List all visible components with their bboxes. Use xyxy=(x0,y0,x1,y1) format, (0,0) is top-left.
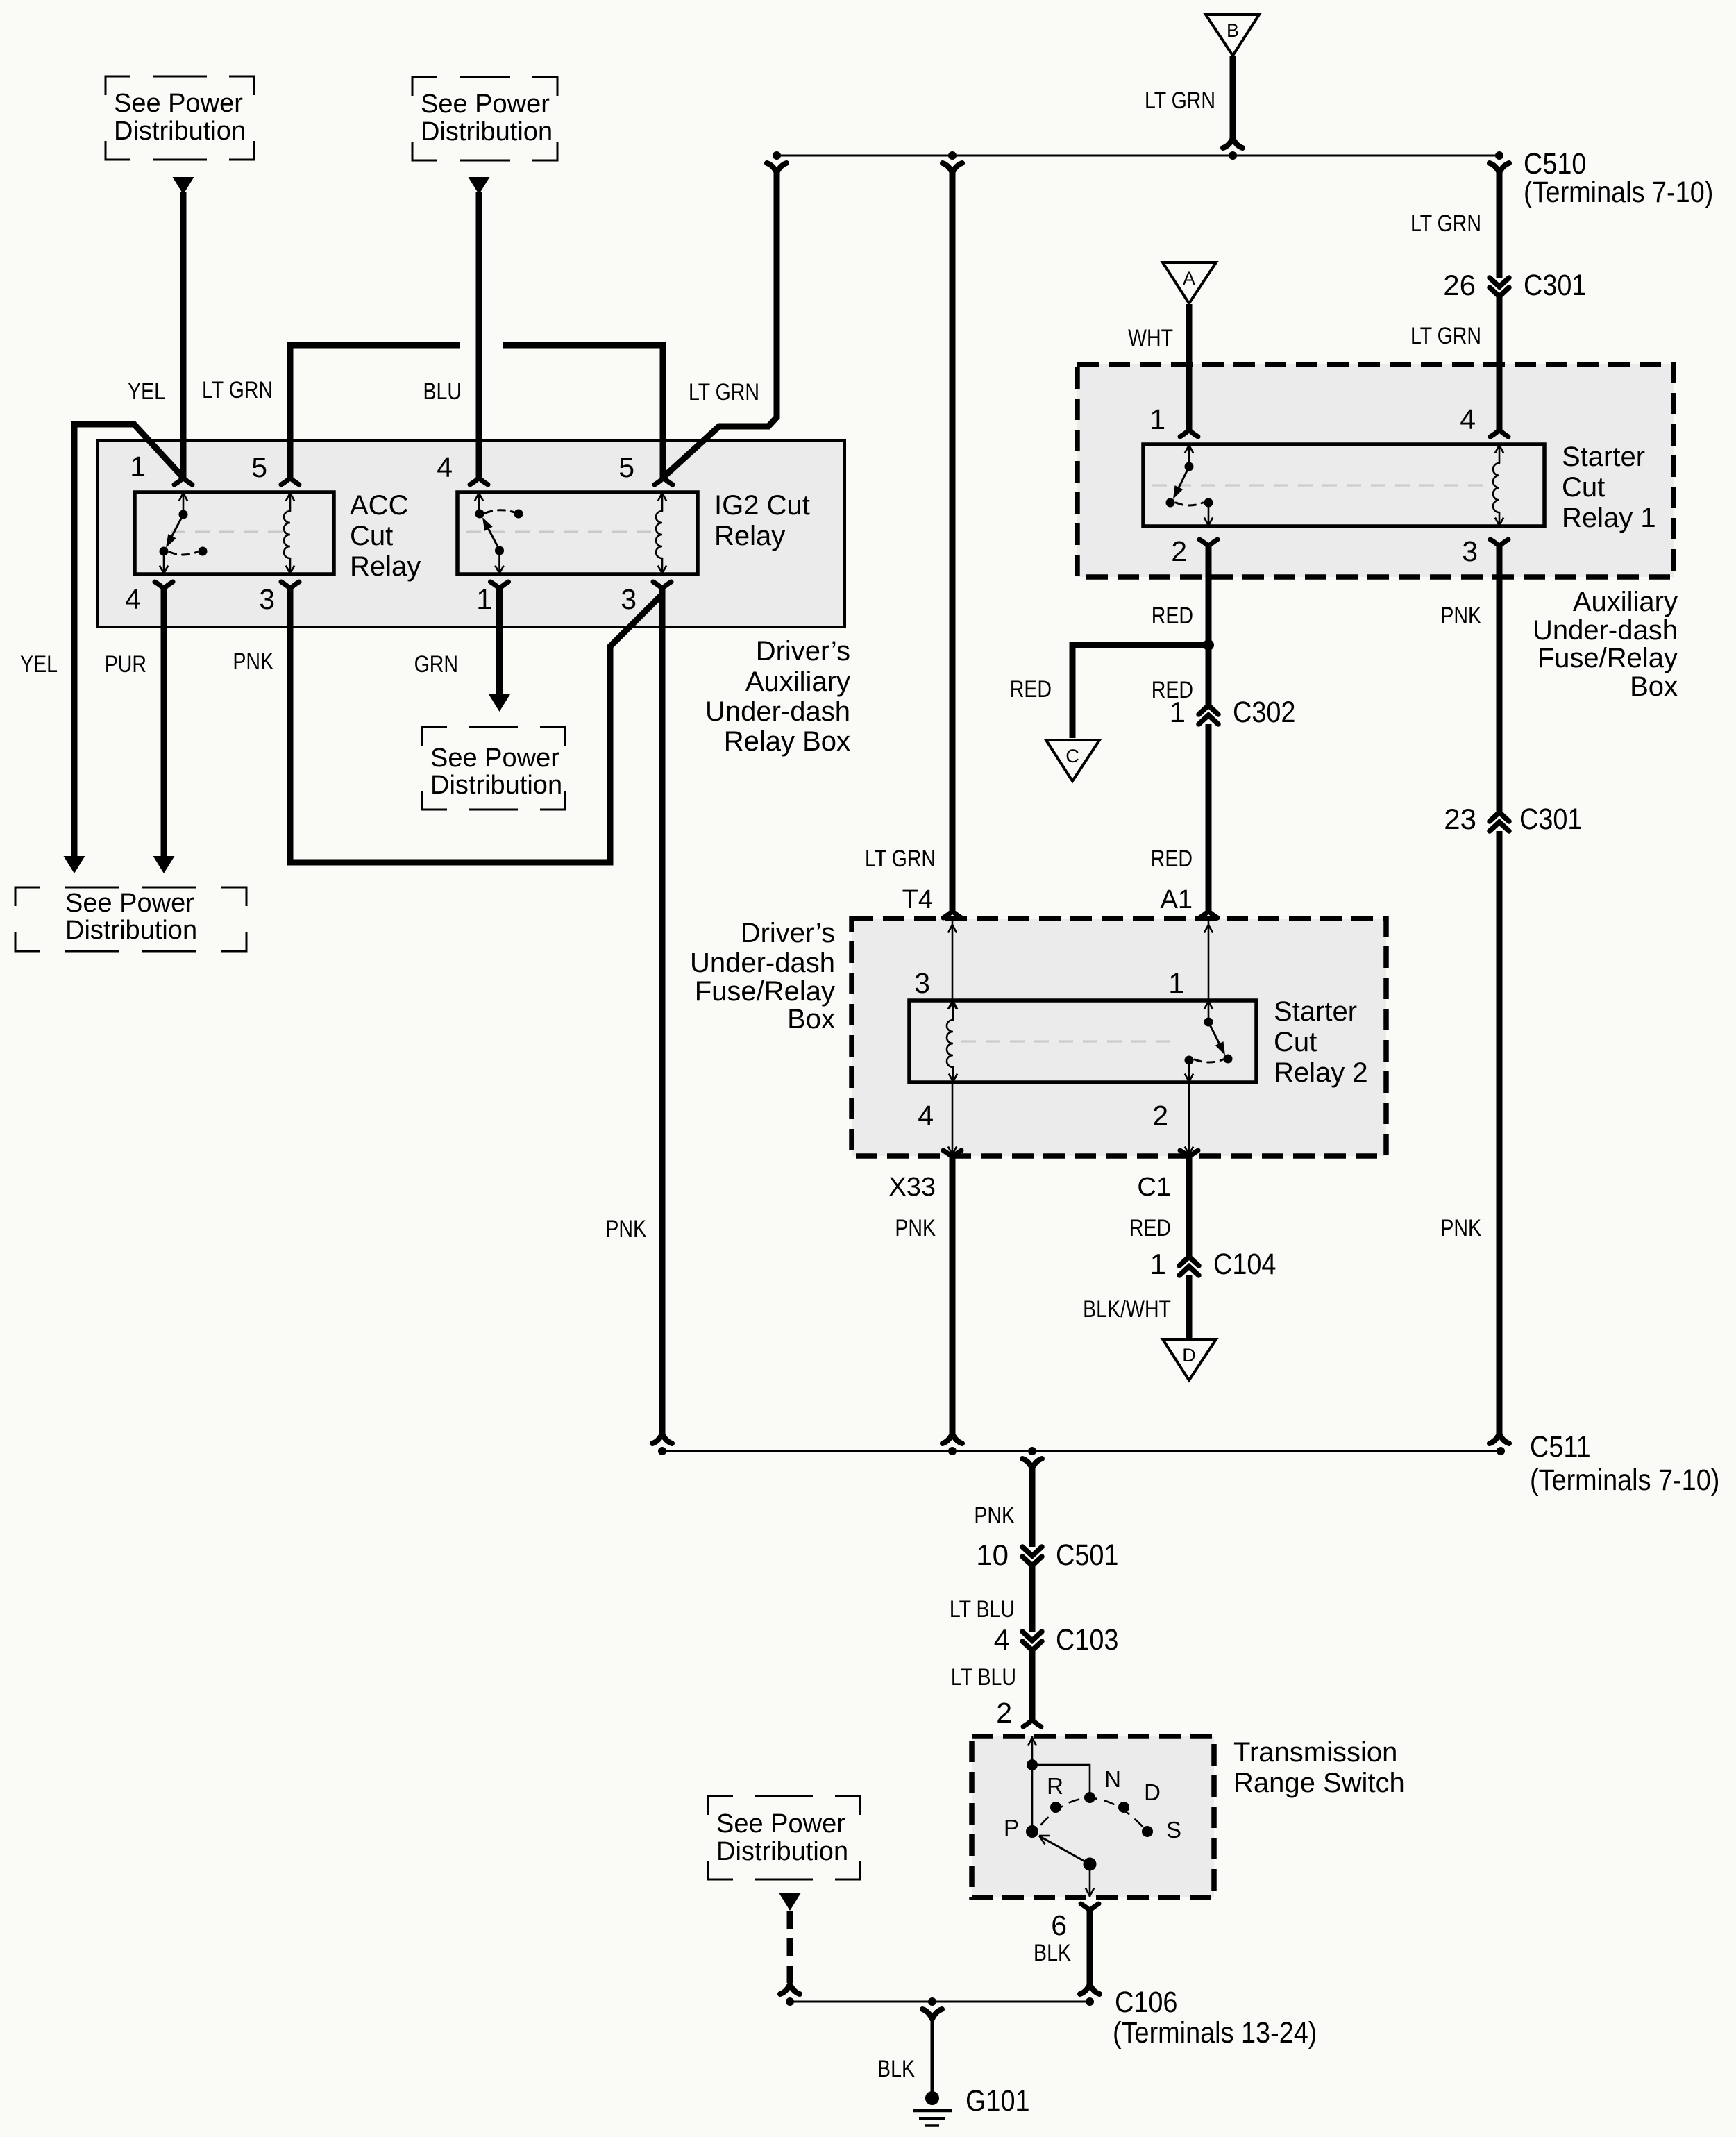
svg-text:1: 1 xyxy=(1150,1248,1166,1280)
wire: thin bus line C511 xyxy=(662,1450,1501,1452)
svg-text:PNK: PNK xyxy=(1440,1215,1481,1241)
svg-text:BLK/WHT: BLK/WHT xyxy=(1083,1296,1171,1323)
svg-text:LT GRN: LT GRN xyxy=(202,377,273,403)
relay2 outer stem A1 xyxy=(1204,919,1213,1000)
relay2 outer stem X33 xyxy=(948,1082,957,1156)
pin 1 terminal (IG2) xyxy=(476,582,508,615)
wire: YEL from power distribution to ACC pin 1 xyxy=(180,192,187,478)
power feed arrow GRN xyxy=(489,694,510,712)
svg-text:G101: G101 xyxy=(966,2084,1030,2118)
svg-text:LT GRN: LT GRN xyxy=(1410,210,1481,237)
svg-text:4: 4 xyxy=(437,451,453,483)
component box: Driver's Under-dash Fuse/Relay Box (dashed) xyxy=(852,919,1386,1156)
node: C511 dot left end (PNK) xyxy=(652,1434,672,1455)
svg-text:GRN: GRN xyxy=(414,651,458,678)
label ACC Cut Relay xyxy=(350,490,421,582)
wire: BLK transmission pin6 to C106 xyxy=(1087,1911,1093,1984)
label PNK (ACC pin3) xyxy=(233,648,273,675)
component box: Transmission Range Switch (dashed) xyxy=(972,1736,1214,1897)
See Power Distribution box 2 xyxy=(412,77,557,160)
pin 5 terminal (IG2) xyxy=(618,451,673,485)
svg-text:Relay 1: Relay 1 xyxy=(1562,503,1656,533)
label Driver's Under-dash Fuse/Relay Box xyxy=(690,918,835,1034)
label PNK (left of driver's box) xyxy=(605,1216,646,1242)
transmission dashed arc xyxy=(1041,1798,1145,1829)
svg-text:T4: T4 xyxy=(902,885,933,914)
connector C302 terminal 1 xyxy=(1170,695,1296,729)
svg-text:See Power: See Power xyxy=(114,89,243,118)
transmission output stem xyxy=(1086,1864,1094,1897)
label LT GRN (above T4) xyxy=(865,846,936,872)
wire: RED C302 to A1 xyxy=(1206,724,1212,910)
svg-text:Cut: Cut xyxy=(1562,472,1605,503)
component box: Auxiliary Under-dash Fuse/Relay Box (dashed) xyxy=(1077,364,1674,577)
wire: dashed feed to C106 xyxy=(787,1911,793,1983)
pin 3 terminal (IG2) xyxy=(621,582,671,615)
svg-text:LT GRN: LT GRN xyxy=(1145,87,1215,114)
svg-text:5: 5 xyxy=(618,451,634,483)
svg-text:RED: RED xyxy=(1129,1215,1171,1241)
pin 3 terminal (ACC) xyxy=(259,582,299,615)
svg-text:Driver’s: Driver’s xyxy=(741,918,835,948)
pin C1 terminal (driver's box) xyxy=(1180,1150,1198,1157)
svg-text:Distribution: Distribution xyxy=(421,117,553,146)
svg-text:C302: C302 xyxy=(1233,695,1295,729)
label LT GRN (B wire) xyxy=(1145,87,1215,114)
label T4 (blue) xyxy=(902,885,933,914)
wire: RED relay1 pin2 to junction xyxy=(1206,546,1212,645)
node: RED junction dot xyxy=(1203,639,1214,651)
label PNK (right, above C511) xyxy=(1440,1215,1481,1241)
label PUR xyxy=(105,651,146,678)
svg-text:(Terminals 7-10): (Terminals 7-10) xyxy=(1524,175,1713,209)
transmission rotor arm xyxy=(1039,1836,1097,1871)
svg-text:PUR: PUR xyxy=(105,651,146,678)
svg-text:Relay Box: Relay Box xyxy=(724,726,850,757)
svg-text:Box: Box xyxy=(787,1004,835,1034)
svg-text:PNK: PNK xyxy=(974,1502,1015,1529)
pin 1 terminal (ACC) xyxy=(130,451,192,485)
svg-text:A1: A1 xyxy=(1161,885,1193,914)
svg-text:RED: RED xyxy=(1151,846,1193,872)
svg-text:26: 26 xyxy=(1443,269,1476,301)
See Power Distribution box 4 xyxy=(422,727,565,810)
contact P xyxy=(1004,1815,1038,1841)
wire: LT GRN bus to IG2 pin 5 xyxy=(664,171,777,477)
ground G101 xyxy=(913,2084,1030,2125)
node: C106 dot left end xyxy=(780,1984,800,2006)
svg-text:R: R xyxy=(1047,1773,1063,1799)
svg-text:1: 1 xyxy=(476,583,492,615)
connector C501 terminal 10 xyxy=(976,1538,1118,1572)
label GRN xyxy=(414,651,458,678)
label Starter Cut Relay 1 xyxy=(1562,442,1656,533)
wire: GRN IG2 pin1 to See Power Distribution xyxy=(496,589,503,695)
label C1 (blue) xyxy=(1137,1173,1171,1202)
svg-text:PNK: PNK xyxy=(233,648,273,675)
pin X33 terminal (driver's box) xyxy=(943,1150,961,1157)
svg-text:YEL: YEL xyxy=(128,378,165,405)
svg-text:Distribution: Distribution xyxy=(65,916,197,945)
power feed arrow YEL (bottom) xyxy=(64,856,85,873)
svg-text:2: 2 xyxy=(996,1697,1012,1729)
label BLU (top) xyxy=(423,378,462,405)
svg-text:C301: C301 xyxy=(1524,268,1586,302)
label C106 (Terminals 13-24) xyxy=(1113,1985,1317,2050)
svg-text:2: 2 xyxy=(1152,1100,1168,1132)
svg-text:Relay: Relay xyxy=(714,521,785,551)
label PNK (relay1 pin3) xyxy=(1440,603,1481,629)
svg-text:C103: C103 xyxy=(1056,1623,1118,1657)
IG2 coil xyxy=(656,492,666,574)
svg-text:C1: C1 xyxy=(1137,1173,1171,1202)
svg-text:ACC: ACC xyxy=(350,490,408,521)
component box: Driver's Auxiliary Under-dash Relay Box xyxy=(97,440,845,627)
pin 3 label (relay2) xyxy=(914,967,930,999)
svg-text:23: 23 xyxy=(1444,803,1476,835)
wire: BLK/WHT C104 to D xyxy=(1186,1275,1193,1339)
wire: PUR ACC pin4 to See Power Distribution xyxy=(161,589,167,857)
svg-text:RED: RED xyxy=(1152,603,1193,629)
svg-text:3: 3 xyxy=(621,583,637,615)
wire: PNK X33 to C511 xyxy=(950,1157,956,1435)
svg-text:Range Switch: Range Switch xyxy=(1233,1768,1405,1798)
svg-text:Auxiliary: Auxiliary xyxy=(745,667,850,697)
svg-text:Distribution: Distribution xyxy=(716,1837,848,1866)
svg-text:C104: C104 xyxy=(1213,1247,1276,1281)
node: C511 dot C501 stem xyxy=(1022,1447,1042,1468)
label IG2 Cut Relay xyxy=(714,490,810,551)
wire: LT GRN bus to T4 xyxy=(950,171,956,910)
label YEL (left) xyxy=(20,651,58,678)
node: C511 dot right end (PNK) xyxy=(1490,1434,1509,1455)
svg-text:10: 10 xyxy=(976,1539,1009,1571)
label Starter Cut Relay 2 xyxy=(1274,996,1368,1088)
power feed arrow below box 5 xyxy=(779,1893,801,1911)
label A1 (blue) xyxy=(1161,885,1193,914)
relay1 switch xyxy=(1166,444,1213,526)
svg-text:YEL: YEL xyxy=(20,651,58,678)
node: junction dot B wire on top bus xyxy=(1229,151,1237,160)
See Power Distribution box 3 xyxy=(15,887,246,951)
relay outline: ACC Cut Relay xyxy=(135,492,334,574)
transmission link to N contact xyxy=(1032,1765,1090,1797)
contact R xyxy=(1047,1773,1063,1813)
ACC coil xyxy=(284,492,294,574)
svg-text:Transmission: Transmission xyxy=(1233,1737,1397,1768)
connector C104 terminal 1 xyxy=(1150,1247,1276,1281)
svg-text:A: A xyxy=(1183,268,1195,289)
svg-text:Auxiliary: Auxiliary xyxy=(1573,587,1678,617)
svg-text:Fuse/Relay: Fuse/Relay xyxy=(695,976,835,1007)
IG2 dashed crossover line xyxy=(466,531,652,533)
connector C301 terminal 23 xyxy=(1444,802,1582,836)
wire: thin bus line C106 xyxy=(790,2001,1090,2003)
svg-text:S: S xyxy=(1166,1817,1181,1843)
label PNK (X33 wire) xyxy=(895,1215,936,1241)
svg-text:See Power: See Power xyxy=(421,90,550,119)
transmission input stem xyxy=(1027,1736,1038,1770)
svg-text:X33: X33 xyxy=(888,1173,936,1202)
svg-text:Box: Box xyxy=(1630,671,1678,702)
svg-text:LT BLU: LT BLU xyxy=(950,1596,1015,1623)
svg-text:Relay: Relay xyxy=(350,551,421,582)
pin 4 terminal (ACC) xyxy=(125,582,173,615)
label WHT xyxy=(1128,325,1173,351)
contact D xyxy=(1118,1779,1161,1813)
node: C106 dot right end xyxy=(1080,1984,1099,2006)
wire: thin bus line between C510 junctions xyxy=(777,155,1499,157)
svg-text:Under-dash: Under-dash xyxy=(1533,615,1678,646)
wire: YEL ACC pin1 to See Power Distribution (left) xyxy=(74,424,183,857)
wire: LT BLU C103 to transmission range switch xyxy=(1029,1651,1036,1720)
wire: BLU from power distribution to IG2 pin 4 xyxy=(476,192,482,478)
label LT GRN (ACC pin5 wire) xyxy=(202,377,273,403)
label Driver's Auxiliary Under-dash Relay Box xyxy=(705,636,850,757)
svg-text:See Power: See Power xyxy=(65,889,194,918)
relay2 dashed crossover line xyxy=(961,1041,1180,1043)
See Power Distribution box 1 xyxy=(106,76,254,160)
svg-text:See Power: See Power xyxy=(430,744,559,773)
svg-text:1: 1 xyxy=(1149,403,1165,435)
svg-text:C: C xyxy=(1065,746,1079,766)
svg-text:Driver’s: Driver’s xyxy=(756,636,850,667)
svg-text:LT BLU: LT BLU xyxy=(951,1664,1016,1691)
pin 4 terminal (relay1) xyxy=(1460,403,1508,437)
label PNK (C511 to C501) xyxy=(974,1502,1015,1529)
svg-text:D: D xyxy=(1144,1779,1161,1805)
svg-text:LT GRN: LT GRN xyxy=(1410,323,1481,349)
contact N xyxy=(1084,1766,1121,1803)
svg-text:See Power: See Power xyxy=(716,1809,845,1838)
pin T4 terminal (driver's box) xyxy=(943,911,961,918)
IG2 switch xyxy=(475,492,523,574)
svg-text:LT GRN: LT GRN xyxy=(865,846,936,872)
svg-text:RED: RED xyxy=(1010,676,1052,703)
svg-text:Starter: Starter xyxy=(1562,442,1645,472)
label BLK (pin 6 wire) xyxy=(1034,1940,1071,1966)
svg-text:C511: C511 xyxy=(1530,1430,1591,1464)
svg-text:3: 3 xyxy=(259,583,275,615)
wire: PNK IG2 pin3 to C511 xyxy=(659,589,666,1435)
node: C106 dot center (ground stem) xyxy=(922,1997,942,2019)
label RED (C1 wire) xyxy=(1129,1215,1171,1241)
svg-text:PNK: PNK xyxy=(895,1215,936,1241)
svg-text:4: 4 xyxy=(125,583,141,615)
svg-text:PNK: PNK xyxy=(1440,603,1481,629)
svg-text:C106: C106 xyxy=(1115,1985,1177,2019)
power feed arrow below box 2 xyxy=(469,177,490,194)
wire: LT GRN C510 to C301 terminal 26 xyxy=(1497,171,1503,278)
relay1 dashed crossover line xyxy=(1152,485,1488,487)
svg-text:6: 6 xyxy=(1051,1909,1067,1941)
svg-text:Under-dash: Under-dash xyxy=(705,696,850,727)
pin 1 label (relay2) xyxy=(1168,967,1184,999)
pin 1 terminal (relay1) xyxy=(1149,403,1198,437)
wire: PNK ACC pin3 jog to IG2 pin3 xyxy=(290,589,661,862)
svg-text:Starter: Starter xyxy=(1274,996,1357,1027)
svg-text:N: N xyxy=(1104,1766,1121,1792)
connector C103 terminal 4 xyxy=(994,1623,1119,1657)
svg-text:C501: C501 xyxy=(1056,1538,1118,1572)
label RED (above A1) xyxy=(1151,846,1193,872)
svg-text:BLK: BLK xyxy=(1034,1940,1071,1966)
label LT GRN (C301 to relay box) xyxy=(1410,323,1481,349)
svg-text:Cut: Cut xyxy=(1274,1027,1317,1057)
relay2 outer stem T4 xyxy=(948,919,957,1009)
label LT BLU (C501 to C103) xyxy=(950,1596,1015,1623)
svg-text:WHT: WHT xyxy=(1128,325,1173,351)
label LT GRN (bus to IG2 pin5) xyxy=(689,379,759,405)
svg-text:Under-dash: Under-dash xyxy=(690,948,835,978)
svg-text:3: 3 xyxy=(1462,535,1478,567)
wire: PNK C511 to C501 xyxy=(1029,1466,1036,1547)
transmission stem to P contact xyxy=(1031,1765,1034,1827)
relay2 outer stem C1 xyxy=(1185,1082,1193,1156)
pin 6 terminal (transmission) xyxy=(1051,1904,1099,1941)
svg-text:D: D xyxy=(1182,1345,1196,1366)
svg-text:3: 3 xyxy=(914,967,930,999)
relay2 coil xyxy=(947,1000,957,1082)
power feed arrow below box 1 xyxy=(173,177,194,194)
ACC switch xyxy=(160,492,208,574)
off-page connector B xyxy=(1206,15,1259,56)
node: C511 dot X33 wire xyxy=(943,1434,962,1455)
wire: RED branch to C xyxy=(1072,645,1208,738)
label RED (junction to C302) xyxy=(1152,677,1193,703)
label RED (branch to C) xyxy=(1010,676,1052,703)
label RED (below pin2) xyxy=(1152,603,1193,629)
relay outline: IG2 Cut Relay xyxy=(457,492,698,574)
wire: LT GRN C301 to relay1 pin 4 xyxy=(1497,297,1503,430)
wire: LT GRN ACC pin5 link left segment xyxy=(290,345,460,478)
label LT GRN (C510 to C301) xyxy=(1410,210,1481,237)
node: junction dot T4 branch on top bus xyxy=(943,151,962,173)
relay K1 outline: Starter Cut Relay 1 xyxy=(1143,444,1544,526)
off-page connector D xyxy=(1163,1339,1216,1380)
svg-text:C301: C301 xyxy=(1519,802,1582,836)
pin 4 terminal (IG2) xyxy=(437,451,488,485)
svg-text:IG2 Cut: IG2 Cut xyxy=(714,490,810,521)
svg-text:LT GRN: LT GRN xyxy=(689,379,759,405)
wire: BLK C106 to G101 xyxy=(931,2018,934,2093)
See Power Distribution box 5 xyxy=(708,1796,860,1879)
power feed arrow PUR xyxy=(153,856,175,873)
svg-text:4: 4 xyxy=(918,1100,934,1132)
off-page connector A xyxy=(1163,262,1216,303)
svg-text:PNK: PNK xyxy=(605,1216,646,1242)
svg-text:(Terminals 7-10): (Terminals 7-10) xyxy=(1530,1463,1719,1497)
relay K2 outline: Starter Cut Relay 2 xyxy=(909,1000,1256,1082)
svg-text:Distribution: Distribution xyxy=(114,117,246,146)
svg-text:1: 1 xyxy=(1168,967,1184,999)
svg-text:Relay 2: Relay 2 xyxy=(1274,1057,1368,1088)
svg-text:Cut: Cut xyxy=(350,521,393,551)
label YEL (top) xyxy=(128,378,165,405)
pin 5 terminal (ACC) xyxy=(251,451,299,485)
pin 2 terminal (relay1) xyxy=(1171,535,1217,567)
svg-text:4: 4 xyxy=(1460,403,1476,435)
svg-text:B: B xyxy=(1227,20,1239,41)
svg-text:Distribution: Distribution xyxy=(430,771,562,800)
label BLK/WHT xyxy=(1083,1296,1171,1323)
pin A1 terminal (driver's box) xyxy=(1199,911,1217,918)
relay1 coil xyxy=(1493,444,1503,526)
relay2 switch xyxy=(1185,1000,1233,1082)
svg-text:1: 1 xyxy=(1170,696,1186,728)
ACC dashed crossover line xyxy=(171,531,285,533)
contact S xyxy=(1142,1817,1181,1843)
label LT BLU (above transmission) xyxy=(951,1664,1016,1691)
label C511 (Terminals 7-10) xyxy=(1530,1430,1719,1497)
label Transmission Range Switch xyxy=(1233,1737,1405,1798)
pin 3 terminal (relay1) xyxy=(1462,535,1508,567)
wire: RED junction to C302 xyxy=(1206,645,1212,706)
node: junction dot C510 right end xyxy=(1490,151,1509,173)
wire: RED C1 to C104 xyxy=(1186,1157,1193,1257)
off-page connector C xyxy=(1046,740,1099,781)
svg-text:BLK: BLK xyxy=(877,2056,915,2082)
label C510 (Terminals 7-10) xyxy=(1524,146,1713,209)
wire: LT GRN link right segment to IG2 pin5 xyxy=(503,345,663,478)
pin 2 label (relay2) xyxy=(1152,1100,1168,1132)
svg-text:2: 2 xyxy=(1171,535,1187,567)
label X33 (blue) xyxy=(888,1173,936,1202)
svg-text:1: 1 xyxy=(130,451,146,483)
wire: WHT from A to relay1 pin 1 xyxy=(1186,304,1193,430)
label BLK (ground wire) xyxy=(877,2056,915,2082)
wire: PNK relay1 pin3 to C301-23 xyxy=(1497,546,1503,812)
label Auxiliary Under-dash Fuse/Relay Box xyxy=(1533,587,1678,702)
node: junction dot left end of top bus xyxy=(767,151,786,173)
pin 4 label (relay2) xyxy=(918,1100,934,1132)
svg-text:Fuse/Relay: Fuse/Relay xyxy=(1537,643,1678,673)
svg-text:(Terminals 13-24): (Terminals 13-24) xyxy=(1113,2016,1317,2050)
svg-text:BLU: BLU xyxy=(423,378,462,405)
connector C301 terminal 26 xyxy=(1443,268,1586,302)
wire: LT BLU C501 to C103 xyxy=(1029,1566,1036,1632)
wire: LT GRN from B to top bus xyxy=(1223,56,1242,148)
wire: PNK C301-23 to C511 xyxy=(1497,831,1503,1435)
svg-text:P: P xyxy=(1004,1815,1019,1841)
svg-text:4: 4 xyxy=(994,1623,1010,1656)
svg-text:5: 5 xyxy=(251,451,267,483)
pin 2 terminal (transmission) xyxy=(996,1697,1041,1729)
